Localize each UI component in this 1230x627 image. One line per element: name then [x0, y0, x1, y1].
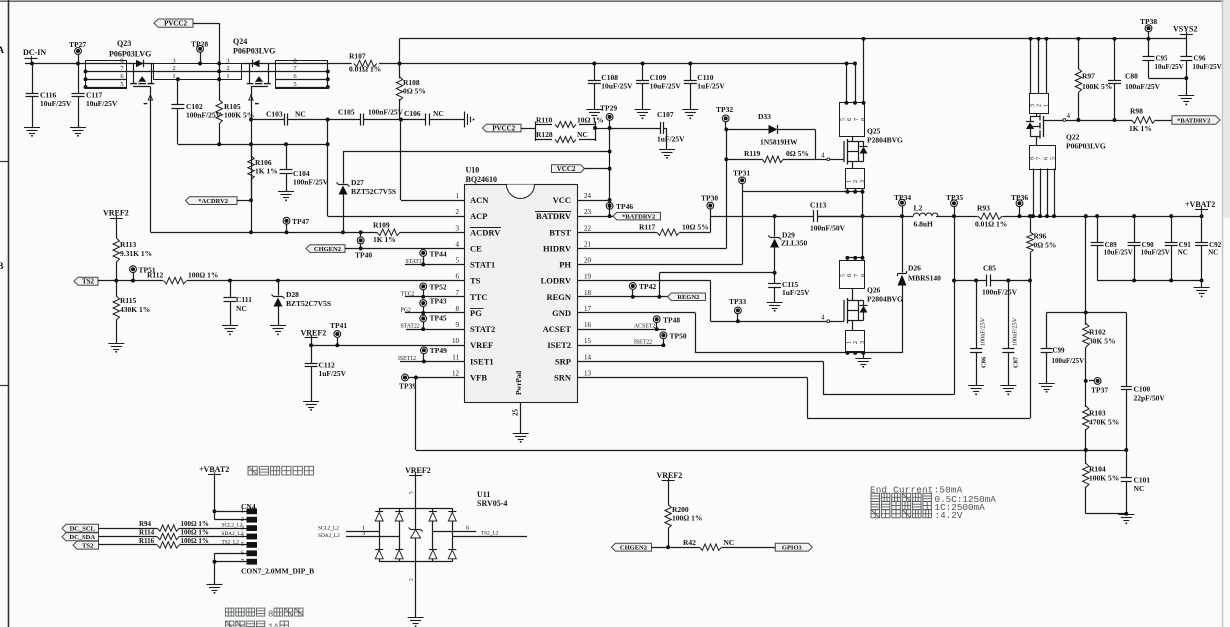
- svg-text:TP30: TP30: [701, 194, 718, 203]
- capacitor C105: [360, 114, 362, 126]
- wire pin18 REGN: [577, 296, 668, 298]
- svg-text:1K 1%: 1K 1%: [373, 235, 396, 244]
- svg-text:VREF2: VREF2: [301, 329, 327, 338]
- svg-text:TS: TS: [470, 276, 481, 286]
- svg-text:9: 9: [456, 321, 460, 329]
- wire pin5 STAT1: [405, 264, 464, 266]
- svg-text:VCC2: VCC2: [557, 165, 576, 173]
- svg-text:PVCC2: PVCC2: [164, 20, 187, 28]
- svg-text:10uF/25V: 10uF/25V: [1193, 63, 1222, 71]
- svg-text:P06P03LVG: P06P03LVG: [1066, 142, 1106, 151]
- sheet border: [0, 0, 1230, 2]
- resistor R116: [99, 544, 158, 546]
- svg-text:8: 8: [1030, 157, 1036, 160]
- svg-text:25: 25: [512, 409, 520, 417]
- diode array U11 bridge: [379, 508, 452, 510]
- svg-text:6: 6: [847, 274, 853, 277]
- wire pin11 ISET1: [400, 361, 464, 363]
- wire pin3 ACDRV net: [151, 232, 377, 234]
- svg-text:P06P03LVG: P06P03LVG: [109, 50, 151, 59]
- testpoint TP39: [402, 374, 409, 381]
- svg-text:R96: R96: [1034, 232, 1047, 241]
- svg-text:R42: R42: [683, 538, 696, 547]
- resistor R93: [978, 213, 1002, 219]
- svg-text:TP27: TP27: [69, 40, 86, 49]
- svg-text:TTC: TTC: [470, 292, 487, 302]
- wire pin13 SRN: [577, 377, 807, 379]
- svg-text:19: 19: [584, 273, 592, 281]
- wire srp node vert: [954, 216, 956, 395]
- svg-text:SDA2_L2: SDA2_L2: [222, 531, 244, 537]
- wire Q23 gate drop: [150, 87, 152, 233]
- svg-text:L2: L2: [914, 204, 923, 213]
- testpoint TP27: [75, 48, 82, 55]
- svg-text:10uF/25V: 10uF/25V: [601, 82, 633, 91]
- capacitor C113: [813, 210, 815, 222]
- wire VFB down: [415, 378, 417, 451]
- svg-text:NC: NC: [577, 130, 588, 139]
- wire btst batt line: [710, 216, 813, 218]
- testpoint TP30: [707, 202, 714, 209]
- svg-text:100nF/25V: 100nF/25V: [1125, 82, 1161, 91]
- label battery chinese: [248, 466, 257, 475]
- testpoint TP32: [722, 115, 729, 122]
- diode D33: [726, 129, 768, 131]
- testpoint TP45: [420, 315, 427, 322]
- svg-text:TP37: TP37: [1091, 386, 1108, 395]
- connector CN4: [247, 508, 258, 514]
- svg-text:TP46: TP46: [616, 202, 633, 211]
- resistor R107: [354, 60, 377, 66]
- svg-text:C100: C100: [1134, 385, 1151, 394]
- transistor Q26 lower package: [846, 331, 865, 352]
- wire acn net: [251, 119, 284, 121]
- svg-text:TP42: TP42: [639, 282, 656, 291]
- svg-text:ACP: ACP: [470, 211, 487, 221]
- U11 pin3 wire: [346, 536, 399, 538]
- svg-text:10uF/25V: 10uF/25V: [86, 99, 118, 108]
- svg-text:2: 2: [172, 65, 175, 72]
- transistor Q24 symbol: [241, 63, 276, 65]
- svg-text:16: 16: [584, 321, 592, 329]
- resistor R96: [1030, 216, 1032, 232]
- svg-text:ISET22: ISET22: [634, 340, 652, 346]
- ground C99: [1039, 383, 1055, 385]
- wire dcin: [25, 63, 86, 65]
- svg-text:U10: U10: [466, 166, 480, 175]
- ground vbat caps: [1194, 287, 1210, 289]
- transistor Q23-Q24 drain package box: [154, 64, 242, 80]
- svg-text:10uF/25V: 10uF/25V: [1104, 249, 1133, 257]
- capacitor C92: [1201, 216, 1203, 242]
- svg-text:20: 20: [584, 257, 592, 265]
- svg-text:A: A: [0, 45, 5, 55]
- testpoint TP29: [606, 114, 613, 121]
- svg-text:6: 6: [456, 273, 460, 281]
- svg-text:1K 1%: 1K 1%: [255, 167, 278, 176]
- svg-text:NC: NC: [433, 109, 444, 118]
- diode D27: [343, 152, 345, 184]
- svg-text:ISET2: ISET2: [547, 340, 571, 350]
- label charge max current: [871, 502, 880, 510]
- svg-text:10Ω 5%: 10Ω 5%: [682, 223, 709, 232]
- wire pin21 HIDRV: [577, 248, 726, 250]
- svg-text:NC: NC: [236, 304, 247, 313]
- testpoint TP42: [629, 283, 636, 290]
- svg-text:1: 1: [846, 180, 852, 183]
- resistor R112: [164, 277, 187, 283]
- ground C117: [70, 127, 86, 129]
- ground C116: [24, 127, 40, 129]
- wire pin1 ACN: [401, 200, 464, 202]
- svg-text:NC: NC: [1134, 484, 1145, 493]
- svg-text:R113: R113: [120, 240, 137, 249]
- svg-text:R115: R115: [120, 296, 137, 305]
- wire vcc vertical: [609, 128, 611, 216]
- svg-text:15: 15: [584, 337, 592, 345]
- wire Q24 gate drop: [251, 87, 253, 233]
- svg-text:CE: CE: [470, 243, 482, 253]
- svg-text:5: 5: [241, 541, 244, 548]
- svg-text:1: 1: [172, 73, 175, 80]
- resistor R105: [216, 100, 222, 124]
- wire pin6 TS: [187, 280, 464, 282]
- capacitor C96: [1186, 39, 1188, 57]
- ground C111: [222, 325, 238, 327]
- svg-text:BTST: BTST: [549, 227, 571, 237]
- svg-text:NC: NC: [724, 538, 735, 547]
- svg-text:7: 7: [456, 289, 460, 297]
- capacitor C101: [1126, 450, 1128, 478]
- flag GPIO3: [775, 543, 812, 551]
- wire top line: [400, 38, 1187, 40]
- capacitor C90: [1134, 216, 1136, 242]
- label charge time chinese: [226, 608, 234, 616]
- svg-text:100K 5%: 100K 5%: [1082, 82, 1112, 91]
- ground C96: [1178, 95, 1194, 97]
- svg-text:1: 1: [846, 341, 852, 344]
- svg-text:STAT2: STAT2: [470, 324, 495, 334]
- svg-text:PVCC2: PVCC2: [492, 124, 515, 132]
- wire cn4 pin1 pin2: [215, 511, 239, 513]
- svg-text:NC: NC: [295, 110, 306, 119]
- wire pin19 LODRV: [577, 280, 711, 282]
- wire pin2 ACP: [328, 216, 464, 218]
- ground C108: [586, 109, 602, 111]
- wire vbat caps gnd: [1097, 280, 1202, 282]
- wire pin9 STAT2: [406, 329, 464, 331]
- flag *BATDRV2 pin23: [577, 216, 613, 218]
- svg-text:3: 3: [362, 530, 365, 537]
- svg-text:VSYS2: VSYS2: [1173, 25, 1197, 34]
- svg-text:TP40: TP40: [355, 251, 372, 260]
- svg-text:1uF/25V: 1uF/25V: [697, 82, 725, 91]
- svg-text:ACSET: ACSET: [543, 324, 572, 334]
- svg-text:PH: PH: [559, 260, 571, 270]
- svg-text:TP49: TP49: [430, 346, 447, 355]
- capacitor C107: [610, 128, 661, 130]
- capacitor C95: [1148, 39, 1150, 57]
- wire pin10 VREF: [311, 345, 464, 347]
- svg-text:2: 2: [409, 578, 415, 581]
- svg-text:C86: C86: [981, 356, 988, 368]
- wire c95 c96 gnd: [1149, 78, 1187, 80]
- svg-text:7: 7: [1037, 157, 1043, 160]
- svg-text:VFB: VFB: [470, 372, 487, 382]
- svg-text:ACN: ACN: [470, 195, 489, 205]
- svg-text:TP34: TP34: [894, 193, 911, 202]
- svg-text:TS2: TS2: [82, 543, 93, 550]
- svg-text:+VBAT2: +VBAT2: [1185, 200, 1215, 209]
- capacitor C91: [1171, 216, 1173, 242]
- svg-text:TP35: TP35: [946, 193, 963, 202]
- capacitor C112: [311, 345, 313, 363]
- svg-text:1uF/25V: 1uF/25V: [782, 288, 810, 297]
- svg-text:1A: 1A: [268, 623, 279, 627]
- svg-text:1: 1: [226, 73, 229, 80]
- resistor R104: [1085, 429, 1087, 464]
- svg-text:HIDRV: HIDRV: [543, 243, 572, 253]
- capacitor C111: [230, 281, 232, 298]
- ground D28: [270, 325, 286, 327]
- svg-text:P06P03LVG: P06P03LVG: [233, 47, 275, 56]
- svg-text:MBRS140: MBRS140: [908, 274, 941, 283]
- svg-text:0.01Ω 1%: 0.01Ω 1%: [975, 220, 1007, 229]
- testpoint TP35: [951, 200, 958, 207]
- svg-text:TP44: TP44: [430, 250, 447, 259]
- testpoint TP44: [420, 250, 427, 257]
- ground fb: [1118, 514, 1134, 516]
- ground bus symbol: [863, 353, 865, 358]
- svg-text:1N5819HW: 1N5819HW: [760, 138, 798, 147]
- svg-text:GND: GND: [552, 308, 571, 318]
- svg-text:1uF/25V: 1uF/25V: [657, 135, 685, 144]
- ground U11: [408, 617, 424, 619]
- svg-text:10uF/25V: 10uF/25V: [1155, 63, 1184, 71]
- ground CN4: [207, 584, 223, 586]
- wire pin12 VFB: [408, 377, 464, 379]
- transistor Q22 upper package: [1030, 94, 1049, 114]
- testpoint TP33: [735, 307, 742, 314]
- svg-text:R94: R94: [139, 520, 152, 528]
- svg-text:LODRV: LODRV: [541, 276, 572, 286]
- svg-text:C106: C106: [404, 109, 421, 118]
- U11 pin6 wire: [433, 531, 476, 533]
- svg-text:4: 4: [1067, 112, 1071, 120]
- wire pin17 GND: [577, 312, 695, 314]
- transistor Q23 symbol: [127, 63, 154, 65]
- svg-text:2: 2: [226, 65, 229, 72]
- svg-text:*BATDRV2: *BATDRV2: [1177, 118, 1210, 125]
- svg-text:430K 1%: 430K 1%: [120, 305, 150, 314]
- svg-text:R103: R103: [1089, 409, 1106, 418]
- testpoint TP52: [420, 283, 427, 290]
- flag TS2: [74, 277, 98, 285]
- capacitor C106: [425, 114, 427, 126]
- svg-text:R117: R117: [639, 223, 656, 232]
- testpoint TP51: [130, 266, 137, 273]
- svg-text:0Ω 5%: 0Ω 5%: [403, 87, 426, 96]
- svg-text:*BATDRV2: *BATDRV2: [622, 213, 655, 220]
- ground C115: [767, 302, 783, 304]
- svg-text:1: 1: [1044, 104, 1050, 107]
- resistor R119: [726, 159, 762, 161]
- capacitor C88: [1114, 39, 1116, 81]
- label charge max voltage: [871, 510, 880, 518]
- svg-text:TP28: TP28: [191, 40, 208, 49]
- svg-text:PG2: PG2: [401, 307, 411, 313]
- svg-text:6: 6: [847, 118, 853, 121]
- wire pin20 PH: [577, 264, 742, 266]
- svg-text:VCC: VCC: [553, 195, 571, 205]
- svg-text:C87: C87: [1013, 356, 1020, 368]
- svg-text:VREF: VREF: [470, 340, 493, 350]
- svg-text:6.8uH: 6.8uH: [914, 220, 934, 229]
- svg-text:U11: U11: [477, 490, 490, 499]
- svg-text:P2804BVG: P2804BVG: [867, 295, 903, 304]
- svg-text:100Ω 1%: 100Ω 1%: [181, 537, 209, 545]
- svg-text:CHGEN2: CHGEN2: [314, 246, 341, 253]
- svg-text:6: 6: [1044, 157, 1050, 160]
- svg-text:3: 3: [860, 180, 866, 183]
- capacitor C109: [642, 64, 644, 81]
- svg-text:Q24: Q24: [233, 37, 247, 46]
- capacitor C99: [1046, 312, 1048, 348]
- svg-text:R97: R97: [1082, 72, 1095, 81]
- svg-text:D26: D26: [908, 264, 921, 273]
- testpoint TP36: [1016, 200, 1023, 207]
- svg-text:22pF/50V: 22pF/50V: [1134, 394, 1166, 403]
- svg-text:NC: NC: [1178, 249, 1188, 257]
- svg-text:ZLL350: ZLL350: [781, 239, 808, 248]
- capacitor C110: [690, 64, 692, 81]
- ground C110: [682, 109, 698, 111]
- svg-text:CHGEN2: CHGEN2: [620, 545, 647, 552]
- svg-text:NC: NC: [1208, 249, 1218, 257]
- svg-text:VREF2: VREF2: [405, 466, 431, 475]
- svg-text:TP52: TP52: [430, 283, 447, 292]
- wire cn4 gnd: [215, 553, 239, 555]
- svg-text:VREF2: VREF2: [103, 209, 129, 218]
- resistor R94: [99, 528, 158, 530]
- svg-text:8: 8: [456, 305, 460, 313]
- svg-text::4.2V: :4.2V: [935, 510, 963, 521]
- transistor Q22 lower package: [1030, 146, 1056, 170]
- wire gnd bus: [695, 352, 902, 354]
- svg-text:2: 2: [456, 208, 460, 216]
- wire acn drop: [400, 120, 402, 201]
- testpoint TP47: [283, 217, 290, 224]
- svg-text:6: 6: [466, 524, 470, 531]
- svg-text:2: 2: [853, 341, 859, 344]
- svg-text:C96: C96: [1194, 55, 1207, 63]
- resistor R114: [99, 536, 158, 538]
- svg-text:STAT22: STAT22: [401, 324, 420, 330]
- svg-text:BZT52C7V5S: BZT52C7V5S: [351, 187, 396, 196]
- IC U10 BQ24610: [465, 185, 578, 403]
- svg-text:Q25: Q25: [867, 127, 881, 136]
- svg-text:PwrPad: PwrPad: [515, 371, 523, 395]
- svg-text:5: 5: [120, 81, 123, 88]
- capacitor C117: [78, 64, 80, 94]
- svg-text:VREF2: VREF2: [657, 471, 683, 480]
- svg-text:3: 3: [1030, 104, 1036, 107]
- svg-text:C103: C103: [266, 110, 283, 119]
- svg-text:2: 2: [1037, 104, 1043, 107]
- svg-text:PG: PG: [470, 308, 482, 318]
- flag CHGEN2 pin4: [306, 245, 345, 253]
- testpoint TP38: [1145, 25, 1152, 32]
- svg-text:17: 17: [584, 305, 592, 313]
- svg-text:TP39: TP39: [399, 382, 416, 391]
- transistor Q23 package pins: [86, 61, 127, 89]
- testpoint TP46: [606, 202, 613, 209]
- svg-text:100Ω 1%: 100Ω 1%: [672, 514, 702, 523]
- svg-text:22: 22: [584, 224, 592, 232]
- testpoint TP40: [357, 237, 364, 244]
- svg-text:2: 2: [853, 180, 859, 183]
- svg-text:23: 23: [584, 208, 592, 216]
- diode D28: [278, 281, 280, 296]
- svg-text:100nF/25V: 100nF/25V: [293, 178, 329, 187]
- wire vcc2 net: [343, 151, 610, 153]
- svg-text:100Ω 1%: 100Ω 1%: [188, 271, 218, 280]
- svg-text:C99: C99: [1053, 347, 1066, 355]
- testpoint TP31: [739, 177, 746, 184]
- svg-text:3: 3: [172, 57, 175, 64]
- testpoint TP50: [660, 332, 667, 339]
- ground C107: [659, 149, 675, 151]
- wire fb gnd: [1086, 513, 1127, 515]
- flag TS2 bottom: [73, 541, 99, 549]
- ground C86: [968, 385, 984, 387]
- svg-text:STAT1: STAT1: [470, 260, 495, 270]
- capacitor C104: [286, 144, 288, 170]
- wire main batt line: [817, 216, 913, 218]
- svg-text:R107: R107: [349, 52, 366, 61]
- flag VCC2: [552, 165, 585, 173]
- svg-text:R114: R114: [139, 528, 155, 536]
- ground C112: [303, 401, 319, 403]
- testpoint TP37: [1094, 378, 1101, 385]
- svg-text:DC-IN: DC-IN: [23, 48, 46, 57]
- resistor R98: [1132, 117, 1156, 123]
- svg-text:TTC2: TTC2: [401, 291, 415, 297]
- svg-text:C95: C95: [1156, 55, 1169, 63]
- wire pin14 SRP: [577, 361, 823, 363]
- svg-text:C107: C107: [657, 110, 674, 119]
- svg-text:3: 3: [456, 224, 460, 232]
- svg-text:10: 10: [452, 337, 460, 345]
- svg-text:REGN: REGN: [546, 292, 571, 302]
- flag PVCC2 mid: [483, 124, 522, 132]
- svg-text:100uF/25V: 100uF/25V: [1052, 357, 1085, 365]
- svg-text:TP47: TP47: [292, 217, 309, 226]
- ground C109: [635, 109, 651, 111]
- wire fb vertical top: [1085, 216, 1087, 325]
- svg-text:D27: D27: [351, 178, 364, 187]
- svg-text:5: 5: [840, 118, 846, 121]
- svg-text:R109: R109: [373, 221, 390, 230]
- svg-text:5: 5: [409, 491, 415, 494]
- svg-text:GPIO3: GPIO3: [782, 545, 803, 552]
- svg-text:470K 5%: 470K 5%: [1089, 418, 1119, 427]
- svg-text:100K 5%: 100K 5%: [1089, 474, 1119, 483]
- svg-text:BZT52C7V5S: BZT52C7V5S: [286, 299, 331, 308]
- wire fb node: [1084, 448, 1088, 452]
- svg-text:5: 5: [293, 81, 296, 88]
- flag *ACDRV2: [186, 197, 238, 205]
